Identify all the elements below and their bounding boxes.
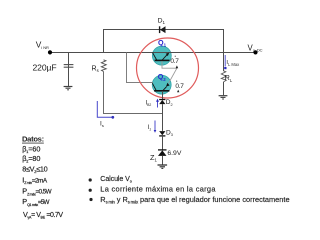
connector Q1 base to Q2 emitter — [162, 61, 177, 68]
svg-text:0.7: 0.7 — [175, 83, 184, 90]
current IL Max arrow — [224, 55, 240, 69]
wire RL to ground — [223, 82, 225, 95]
wire RL branch top — [223, 53, 225, 72]
svg-text:L Max: L Max — [228, 62, 240, 67]
ground (capacitor) — [64, 87, 73, 90]
node Vi dot — [48, 50, 52, 54]
wire D3 to Z1 — [162, 136, 164, 150]
diode D3 — [159, 130, 173, 138]
wire RS to zener chain horizontal — [103, 113, 163, 115]
svg-text:220µF: 220µF — [33, 62, 57, 72]
transistor Q2 symbol — [152, 72, 169, 91]
svg-text:La corriente máxima en la carg: La corriente máxima en la carga — [100, 185, 216, 194]
wire top bypass horizontal — [103, 29, 224, 31]
wire capacitor branch — [68, 53, 70, 87]
current IB2 arrow — [146, 99, 160, 108]
svg-text:6.9V: 6.9V — [167, 150, 181, 157]
svg-text:β1=60: β1=60 — [22, 144, 40, 154]
wire Q2 emitter to D2 — [162, 91, 164, 99]
capacitor C 220uF plates — [64, 64, 74, 66]
svg-text:β2=80: β2=80 — [22, 154, 40, 164]
diode D2 — [159, 99, 172, 107]
transistor Q2 body circle — [152, 75, 171, 94]
node Vo dot — [253, 50, 257, 54]
resistor RS — [92, 60, 107, 73]
ground (RL) — [219, 96, 228, 99]
wire main horizontal line Vi to Vo — [50, 52, 256, 54]
svg-text:Calcule Vo: Calcule Vo — [100, 175, 132, 184]
svg-text:PZ máx=0.5W: PZ máx=0.5W — [22, 187, 51, 197]
resistor RL — [221, 71, 233, 83]
small arrow at 0.7 (Q1) — [176, 65, 179, 68]
current Is annotation — [97, 101, 114, 128]
wire Z1 to ground — [162, 156, 164, 165]
svg-text:Datos:: Datos: — [22, 135, 44, 144]
bullet 2 — [89, 189, 92, 192]
svg-text:0.7: 0.7 — [170, 58, 179, 65]
bullet 1 — [89, 178, 92, 181]
wire RS lower vertical — [103, 72, 105, 114]
zener Z1 — [150, 150, 182, 163]
wire base branch vertical from main line — [126, 53, 128, 83]
red encircle ellipse around darlington — [137, 38, 199, 98]
transistor Q1 symbol — [153, 38, 170, 60]
wire D2 to D3 — [162, 104, 164, 131]
current Iz arrow — [148, 121, 157, 133]
transistor Q1 body circle — [152, 46, 171, 65]
diode D1 — [158, 18, 166, 33]
wire base branch horizontal to Q2 — [126, 82, 153, 84]
wire top bypass right vertical — [223, 30, 225, 53]
ground (zener) — [158, 165, 168, 168]
wire top bypass left vertical — [103, 30, 105, 53]
bullet 3 — [89, 198, 92, 201]
small arrow under 0.7 (Q2) — [177, 90, 179, 93]
